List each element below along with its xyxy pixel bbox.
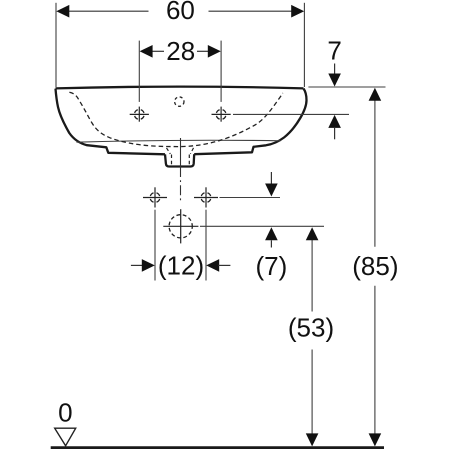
dimension 7 up arrow (328, 115, 341, 139)
drain pipe dashed (172, 155, 190, 166)
center line dash-dot (180, 167, 182, 203)
svg-text:(53): (53) (288, 312, 334, 342)
dimension (85) up arrow (369, 88, 382, 101)
dimension (85) line (374, 100, 376, 434)
dimension (12) extension line left (154, 210, 156, 281)
dimension 28 extension line left (138, 41, 140, 102)
dimension 60 label (166, 0, 195, 25)
dimension (7) label (256, 251, 288, 281)
fixing hole right (194, 187, 218, 207)
basin outer outline (56, 89, 307, 155)
dimension (53) down arrow (306, 433, 319, 446)
dimension 60 extension line right (303, 3, 305, 87)
dimension 28 arrow left (140, 45, 153, 58)
floor line (51, 446, 384, 449)
svg-text:60: 60 (166, 0, 195, 25)
svg-text:7: 7 (327, 36, 341, 66)
dimension 7 down arrow (328, 64, 341, 87)
basin inner bowl dashed (69, 92, 282, 146)
dimension 60 arrow right (291, 5, 304, 18)
siphon level line (200, 225, 324, 227)
svg-text:(7): (7) (256, 251, 288, 281)
dimension 7 label (327, 36, 341, 66)
drain funnel dashed left (167, 148, 171, 154)
tap hole right (212, 107, 231, 122)
dimension (12) arrow right (206, 259, 230, 272)
center line solid (180, 138, 182, 167)
drain box (165, 154, 194, 166)
siphon circle (163, 209, 198, 243)
dimension 60 line (69, 10, 293, 12)
fixing level down arrow (265, 172, 278, 197)
datum triangle (55, 428, 76, 446)
basin top rim line (56, 87, 304, 89)
dimension (85) down arrow (369, 433, 382, 446)
svg-text:28: 28 (166, 36, 195, 66)
drain funnel dashed right (190, 148, 193, 154)
dimension (12) arrow left (131, 259, 155, 272)
dimension (85) label (352, 251, 398, 281)
svg-text:0: 0 (58, 397, 72, 427)
datum zero label (58, 397, 72, 427)
top surface extension line right (308, 86, 385, 88)
dimension (12) label (158, 250, 204, 280)
dimension (53) label (288, 312, 334, 342)
fixing hole level line (220, 197, 281, 199)
dimension (12) extension line right (205, 210, 207, 281)
dimension (7) up arrow (265, 227, 278, 247)
svg-text:(85): (85) (352, 251, 398, 281)
dimension (53) line (311, 240, 313, 435)
dimension 28 line (152, 50, 209, 52)
dimension 60 arrow left (56, 5, 69, 18)
dimension 28 extension line right (220, 41, 222, 102)
dimension 28 arrow right (208, 45, 221, 58)
dimension 60 extension line left (55, 3, 57, 87)
basin back edge line (77, 140, 281, 142)
svg-text:(12): (12) (158, 250, 204, 280)
dimension 28 label (166, 36, 195, 66)
overflow circle (175, 97, 184, 106)
fixing hole left (143, 187, 167, 207)
dimension (53) up arrow (306, 227, 319, 240)
tap hole left (130, 107, 149, 122)
tap hole level line (233, 113, 349, 115)
